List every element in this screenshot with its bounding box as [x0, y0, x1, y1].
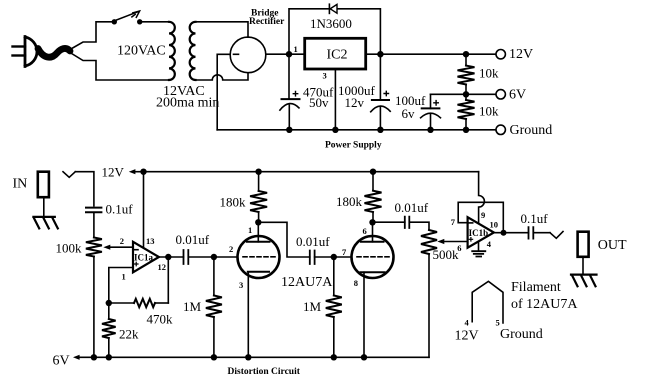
svg-text:1M: 1M: [183, 299, 202, 314]
svg-text:120VAC: 120VAC: [117, 44, 166, 59]
resistor R3 470k: [134, 299, 155, 307]
wire jack to ground: [43, 197, 45, 216]
svg-text:of 12AU7A: of 12AU7A: [511, 297, 578, 312]
junction rail C3: [427, 127, 433, 133]
svg-text:0.01uf: 0.01uf: [395, 200, 429, 215]
junction rail R7: [331, 354, 337, 360]
svg-text:13: 13: [146, 236, 155, 246]
svg-text:12V: 12V: [455, 329, 479, 344]
6V rail distortion: [94, 356, 429, 358]
wire C7 to pot VR2: [409, 222, 429, 230]
svg-text:IC1a: IC1a: [134, 253, 154, 263]
svg-text:4: 4: [487, 239, 492, 249]
wire jack OUT to ground: [582, 257, 584, 275]
svg-text:Power Supply: Power Supply: [325, 141, 382, 151]
svg-text:50v: 50v: [309, 95, 329, 110]
tube V1a triode: [238, 236, 280, 278]
node 1: [286, 51, 292, 57]
AC plug P1: [13, 37, 37, 67]
svg-text:500k: 500k: [433, 247, 460, 262]
op-amp IC1b: [468, 217, 494, 248]
wire feedback drop: [167, 257, 169, 303]
wire 6V to terminal: [466, 93, 496, 95]
svg-text:1N3600: 1N3600: [310, 16, 352, 31]
svg-text:12: 12: [158, 262, 167, 272]
junction output node: [377, 51, 383, 57]
svg-text:200ma min: 200ma min: [156, 96, 219, 111]
wire cathode V1a: [247, 272, 249, 358]
svg-text:Rectifier: Rectifier: [249, 17, 285, 27]
resistor R2 10k: [458, 100, 475, 119]
terminal 6V: [496, 90, 505, 99]
wire V1b plate to C7: [373, 221, 405, 223]
svg-text:1: 1: [294, 44, 298, 54]
wire secondary top to rectifier: [196, 22, 249, 37]
wire plate V1b: [372, 222, 374, 242]
ground rail power supply: [217, 129, 496, 131]
junction output IC1a: [165, 254, 171, 260]
input connector squiggle: [63, 172, 75, 178]
svg-text:470k: 470k: [147, 312, 174, 327]
svg-text:IC1b: IC1b: [469, 228, 489, 238]
svg-text:10k: 10k: [479, 104, 499, 119]
IC2 regulator: [305, 38, 366, 69]
arrow 6V: [80, 356, 94, 358]
power cord: [38, 48, 70, 57]
svg-text:0.01uf: 0.01uf: [296, 234, 330, 249]
wire input to C4: [75, 172, 94, 206]
svg-text:180k: 180k: [336, 194, 363, 209]
svg-text:0.1uf: 0.1uf: [106, 202, 134, 217]
svg-text:0.01uf: 0.01uf: [176, 232, 210, 247]
op-amp IC1a: [133, 242, 159, 272]
svg-text:10: 10: [490, 220, 499, 230]
junction grid node V1a: [211, 254, 217, 260]
wire C6 to grid V1b: [315, 256, 352, 258]
resistor R4 22k: [108, 303, 110, 319]
wire feedback IC1b: [458, 202, 503, 232]
resistor R8 180k: [372, 172, 374, 191]
svg-text:7: 7: [451, 217, 456, 227]
svg-text:6V: 6V: [509, 88, 526, 103]
tube V1b triode: [352, 236, 394, 278]
svg-text:OUT: OUT: [598, 238, 627, 253]
wiper arrow VR1: [103, 245, 110, 250]
wire pin1 input: [109, 268, 133, 304]
svg-text:2: 2: [120, 236, 124, 246]
svg-text:Ground: Ground: [510, 123, 553, 138]
capacitor C2 1000uf: [379, 57, 381, 100]
wire pot bottom to rail: [428, 254, 430, 357]
svg-text:22k: 22k: [119, 327, 139, 342]
svg-text:12AU7A: 12AU7A: [281, 275, 333, 290]
arrow 12V: [133, 171, 144, 173]
junction rail 22k: [106, 354, 112, 360]
resistor R7 1M: [333, 257, 335, 296]
switch S1: [112, 19, 117, 24]
junction rail pin3: [332, 127, 338, 133]
resistor R6 180k: [258, 172, 260, 191]
svg-text:6: 6: [457, 243, 461, 253]
junction rail R6: [255, 169, 261, 175]
svg-text:3: 3: [323, 71, 327, 81]
wire primary upper: [70, 22, 112, 50]
svg-text:12V: 12V: [509, 47, 533, 62]
svg-text:8: 8: [354, 278, 358, 288]
jack J1 IN: [38, 172, 49, 198]
svg-text:12V: 12V: [102, 165, 125, 180]
junction grid node V1b: [331, 254, 337, 260]
diode D1 1N3600 loop wire: [289, 9, 380, 54]
svg-text:Distortion Circuit: Distortion Circuit: [228, 367, 301, 377]
junction rail R2: [463, 127, 469, 133]
wire 12V drop with hop: [479, 172, 485, 224]
jack J2 OUT: [578, 232, 589, 257]
wire rectifier output: [266, 53, 305, 55]
junction rail cathode V1b: [361, 354, 367, 360]
svg-text:3: 3: [239, 280, 243, 290]
wire pot bottom to 6V rail: [93, 257, 95, 358]
svg-text:6: 6: [363, 226, 367, 236]
capacitor C6 0.01uf: [310, 251, 315, 265]
svg-text:IN: IN: [13, 176, 28, 191]
resistor R5 1M: [213, 257, 215, 296]
wiper arrow VR2: [437, 239, 444, 244]
svg-text:0.1uf: 0.1uf: [521, 211, 549, 226]
svg-text:Ground: Ground: [500, 327, 543, 342]
capacitor C7 0.01uf: [405, 217, 410, 228]
wire primary lower: [70, 53, 169, 81]
output connector squiggle: [550, 232, 563, 239]
wire IC2 pin3 down: [334, 69, 336, 130]
transformer T1 secondary: [190, 22, 196, 80]
svg-text:12v: 12v: [345, 95, 365, 110]
wire cathode V1b: [363, 272, 365, 357]
wire secondary bottom with hop: [196, 73, 249, 80]
capacitor C1 470uf: [288, 57, 290, 99]
wire C8 to output squiggle: [533, 232, 550, 234]
svg-text:6V: 6V: [53, 354, 70, 369]
junction feedback node: [106, 300, 112, 306]
wire switch to transformer: [142, 21, 169, 23]
transformer T1 primary: [169, 22, 175, 80]
svg-text:100k: 100k: [56, 241, 83, 256]
wire IC1b output: [494, 232, 529, 234]
12V rail distortion: [144, 171, 479, 173]
chassis ground IN: [33, 217, 57, 229]
junction rail R5: [211, 354, 217, 360]
wire C4 to pot: [93, 212, 95, 237]
junction output IC1b: [501, 230, 507, 236]
capacitor C8 0.1uf: [529, 227, 534, 238]
capacitor C5 0.01uf: [184, 250, 189, 264]
wire IC1a pin13: [143, 172, 145, 248]
potentiometer VR1 100k: [86, 238, 102, 257]
potentiometer VR2 500k: [421, 230, 437, 254]
junction rail cathode V1a: [245, 354, 251, 360]
svg-text:1: 1: [248, 225, 252, 235]
svg-text:IC2: IC2: [327, 48, 348, 63]
capacitor C3 100uf: [430, 94, 432, 108]
junction rail pot: [91, 354, 97, 360]
wire C5 to grid V1a: [188, 256, 237, 258]
wire IC1a output: [159, 256, 184, 258]
junction 12V/R1: [463, 51, 469, 57]
capacitor C4 0.1uf: [86, 208, 101, 213]
bridge rectifier BR1: [230, 37, 266, 73]
junction plate node V1b: [369, 219, 375, 225]
svg-text:10k: 10k: [479, 66, 499, 81]
ground IC1b: [478, 242, 480, 251]
junction 6V node: [463, 91, 469, 97]
junction plate node V1a: [255, 219, 261, 225]
svg-text:Filament: Filament: [511, 280, 561, 295]
svg-text:6v: 6v: [402, 106, 416, 121]
terminal Ground: [496, 125, 505, 134]
junction rail C1: [286, 127, 292, 133]
svg-text:2: 2: [229, 244, 233, 254]
wire rectifier minus down: [217, 54, 230, 130]
svg-text:1: 1: [122, 271, 126, 281]
wire V1a plate to C6: [258, 222, 310, 257]
svg-text:9: 9: [481, 210, 485, 220]
wire 100uf feed: [431, 93, 467, 95]
resistor R1 10k: [465, 54, 467, 65]
filament symbol: [472, 281, 503, 323]
svg-text:180k: 180k: [220, 195, 247, 210]
wire plate V1a: [257, 222, 259, 242]
svg-text:1M: 1M: [303, 299, 322, 314]
wire feedback bottom: [155, 302, 168, 304]
junction rail R8: [370, 169, 376, 175]
wire 12V output rail: [366, 53, 496, 55]
diode D1 symbol: [330, 4, 337, 13]
junction rail C2: [377, 127, 383, 133]
terminal 12V: [496, 50, 505, 59]
chassis ground OUT: [571, 275, 597, 287]
junction 12V rail left: [140, 169, 146, 175]
